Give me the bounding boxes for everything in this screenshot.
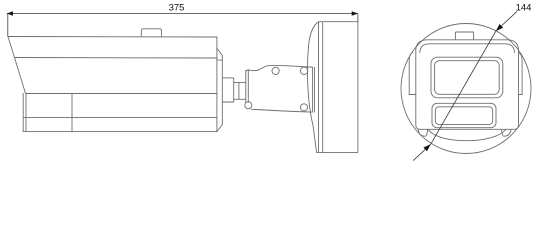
svg-text:144: 144: [516, 3, 532, 14]
svg-text:375: 375: [169, 2, 185, 13]
